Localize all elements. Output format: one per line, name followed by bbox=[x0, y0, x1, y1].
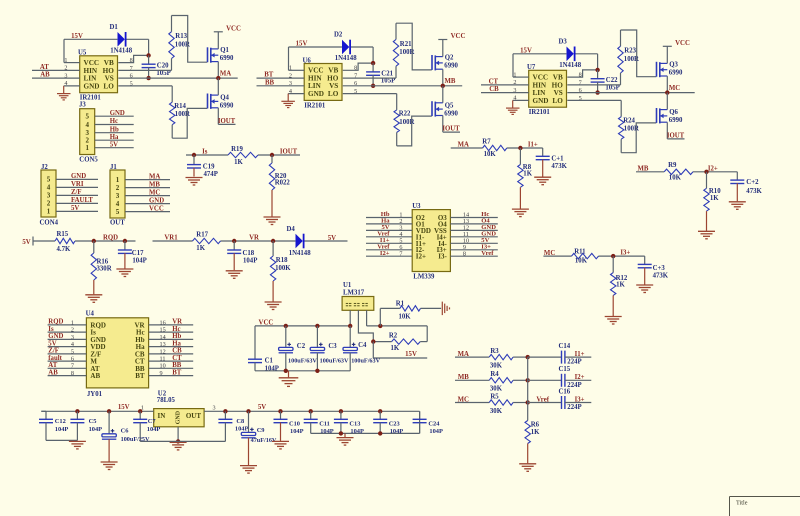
svg-text:RQD: RQD bbox=[103, 235, 118, 242]
transistor Q1 bbox=[211, 48, 219, 50]
power 5V stub bbox=[32, 237, 34, 246]
svg-text:15V: 15V bbox=[71, 33, 83, 40]
wire U4 pin 8 bbox=[48, 375, 87, 377]
ground U7 bbox=[506, 107, 520, 109]
ground C10 bbox=[272, 440, 289, 442]
svg-text:78L05: 78L05 bbox=[157, 397, 176, 404]
wire pin5 LO U6 bbox=[343, 93, 397, 95]
svg-text:5: 5 bbox=[71, 348, 74, 355]
ground C19 bbox=[186, 177, 203, 179]
svg-text:U7: U7 bbox=[527, 64, 536, 71]
wire U4 pin 2 bbox=[48, 331, 87, 333]
node Is bbox=[192, 153, 196, 157]
svg-text:R5: R5 bbox=[490, 393, 499, 400]
svg-text:15V: 15V bbox=[520, 48, 532, 55]
wire pin5 LO U7 bbox=[567, 99, 621, 101]
svg-text:BT: BT bbox=[135, 372, 145, 380]
svg-text:C16: C16 bbox=[559, 388, 571, 395]
svg-text:LO: LO bbox=[328, 90, 339, 98]
wire U3 pin 3 bbox=[366, 229, 412, 231]
svg-text:1N4148: 1N4148 bbox=[335, 55, 358, 62]
node VS U5 bbox=[146, 76, 150, 80]
wire MB line bbox=[343, 85, 462, 87]
ground R20 bbox=[264, 216, 281, 218]
svg-text:LM339: LM339 bbox=[413, 274, 435, 281]
wire to C14 bbox=[528, 356, 562, 358]
svg-text:VS: VS bbox=[105, 75, 114, 83]
svg-text:10K: 10K bbox=[399, 313, 412, 320]
svg-text:Q1: Q1 bbox=[220, 47, 229, 54]
ground R16 bbox=[85, 294, 102, 296]
wire I1+ row bbox=[451, 147, 483, 149]
svg-text:2: 2 bbox=[71, 327, 74, 334]
diode D3 bbox=[567, 47, 574, 62]
capacitor C17 bbox=[124, 241, 126, 250]
ground C+1 bbox=[534, 176, 551, 178]
svg-text:VB: VB bbox=[553, 74, 563, 82]
svg-text:IOUT: IOUT bbox=[442, 126, 460, 133]
ground R10 bbox=[698, 230, 715, 232]
wire to C15 bbox=[528, 379, 562, 381]
wire J3 pin 5 bbox=[95, 115, 134, 117]
node U2 gnd bbox=[176, 439, 180, 443]
svg-text:CB: CB bbox=[172, 348, 182, 355]
ground R18 bbox=[265, 301, 282, 303]
svg-text:VCC: VCC bbox=[308, 67, 324, 75]
ground C+2 bbox=[729, 201, 746, 203]
wire gate loop top R23 bbox=[621, 30, 657, 77]
svg-text:U4: U4 bbox=[86, 311, 95, 318]
capacitor C20 bbox=[148, 55, 150, 64]
svg-text:473K: 473K bbox=[551, 163, 567, 170]
svg-text:11: 11 bbox=[160, 356, 166, 363]
resistor R1 bbox=[379, 308, 381, 326]
svg-text:2: 2 bbox=[116, 184, 120, 192]
capacitor C19 bbox=[193, 155, 195, 165]
ground U2 bbox=[170, 441, 187, 443]
ground U6 bbox=[281, 100, 295, 102]
resistor R5 bbox=[489, 400, 513, 405]
ground C17 bbox=[116, 268, 133, 270]
svg-text:CON4: CON4 bbox=[40, 219, 59, 226]
wire pin8 jog U5 bbox=[118, 55, 148, 62]
svg-text:R24: R24 bbox=[623, 118, 635, 125]
svg-text:104P: 104P bbox=[235, 426, 249, 433]
svg-text:1K: 1K bbox=[234, 159, 243, 166]
wire U4 pin 4 bbox=[48, 346, 87, 348]
svg-text:D1: D1 bbox=[110, 24, 119, 31]
wire J1 pin 2 bbox=[125, 187, 170, 189]
svg-text:IR2101: IR2101 bbox=[304, 102, 326, 109]
wire U4 pin 11 bbox=[149, 360, 194, 362]
wire J1 pin 1 bbox=[125, 179, 170, 181]
svg-text:6990: 6990 bbox=[220, 55, 234, 62]
svg-text:MC: MC bbox=[669, 85, 680, 92]
ground bottom rail bbox=[344, 433, 346, 437]
svg-text:Z/F: Z/F bbox=[71, 189, 82, 196]
svg-text:JY01: JY01 bbox=[87, 391, 103, 398]
svg-text:7: 7 bbox=[71, 363, 74, 370]
svg-text:MA: MA bbox=[458, 351, 469, 358]
svg-text:1: 1 bbox=[47, 208, 51, 216]
svg-text:12: 12 bbox=[160, 348, 166, 355]
svg-text:AB: AB bbox=[48, 369, 58, 376]
svg-text:U6: U6 bbox=[303, 57, 312, 64]
svg-text:J3: J3 bbox=[79, 101, 86, 108]
transistor Q2 bbox=[435, 56, 443, 58]
svg-text:VCC: VCC bbox=[226, 25, 241, 32]
svg-text:5: 5 bbox=[47, 176, 51, 184]
svg-text:I3-: I3- bbox=[438, 253, 447, 261]
node MA bbox=[216, 76, 220, 80]
resistor R9 bbox=[664, 169, 693, 174]
svg-text:IN: IN bbox=[158, 412, 166, 420]
wire BT input bbox=[257, 77, 305, 79]
svg-text:6990: 6990 bbox=[444, 110, 458, 117]
svg-text:13: 13 bbox=[160, 341, 166, 348]
svg-text:8: 8 bbox=[463, 250, 466, 257]
node I2+ bbox=[704, 170, 708, 174]
svg-text:C2: C2 bbox=[297, 343, 306, 350]
svg-text:15V: 15V bbox=[405, 351, 417, 358]
svg-text:C15: C15 bbox=[559, 366, 571, 373]
svg-text:10K: 10K bbox=[575, 257, 588, 264]
wire pin5 LO U5 bbox=[118, 85, 172, 87]
wire pin1 U6 bbox=[289, 69, 305, 71]
node I3+ bbox=[611, 254, 615, 258]
node bottom rail C13 bbox=[339, 431, 343, 435]
svg-text:VB: VB bbox=[328, 67, 338, 75]
svg-text:C24: C24 bbox=[428, 421, 440, 428]
wire U4 pin 10 bbox=[149, 367, 194, 369]
svg-text:VRI: VRI bbox=[71, 181, 84, 188]
svg-text:R23: R23 bbox=[624, 48, 636, 55]
svg-text:OUT: OUT bbox=[186, 412, 202, 420]
wire U3 pin 10 bbox=[450, 242, 497, 244]
capacitor C10 bbox=[278, 409, 282, 413]
svg-text:1: 1 bbox=[71, 319, 74, 326]
svg-text:AT: AT bbox=[40, 64, 49, 71]
svg-text:Hc: Hc bbox=[172, 326, 180, 333]
ground R12 bbox=[605, 316, 622, 318]
resistor R4 bbox=[489, 378, 513, 383]
wire U1 pin VIN bbox=[349, 310, 351, 326]
wire U3 pin 8 bbox=[450, 255, 497, 257]
resistor R12 to ground bbox=[612, 256, 614, 273]
node bottom rail C23 bbox=[378, 431, 382, 435]
svg-text:fault: fault bbox=[48, 355, 62, 362]
wire U4 pin 6 bbox=[48, 360, 87, 362]
svg-text:3: 3 bbox=[116, 192, 120, 200]
wire C7 C8 gnd route bbox=[140, 440, 178, 442]
svg-text:AB: AB bbox=[40, 72, 50, 79]
svg-text:474P: 474P bbox=[204, 171, 218, 178]
wire U3 pin 4 bbox=[366, 236, 412, 238]
node RQD bbox=[92, 239, 96, 243]
svg-text:GND: GND bbox=[84, 82, 100, 90]
svg-text:VR: VR bbox=[172, 319, 182, 326]
svg-text:MC: MC bbox=[458, 396, 469, 403]
svg-text:1: 1 bbox=[85, 144, 89, 152]
svg-text:FAULT: FAULT bbox=[71, 197, 93, 204]
node VOUT R2 bbox=[371, 339, 375, 343]
wire Q2 source to MB bbox=[442, 69, 444, 86]
svg-text:104P: 104P bbox=[55, 426, 69, 433]
ground C5 C12 bbox=[69, 440, 86, 442]
title block bbox=[730, 496, 800, 498]
svg-text:IOUT: IOUT bbox=[667, 133, 685, 140]
svg-text:Q2: Q2 bbox=[445, 55, 454, 62]
wire VCC rail U1 bbox=[255, 325, 350, 327]
wire U1 pin VOUT bbox=[358, 310, 373, 341]
svg-text:VCC: VCC bbox=[451, 33, 466, 40]
svg-text:MB: MB bbox=[149, 181, 160, 188]
svg-text:104P: 104P bbox=[320, 428, 334, 435]
wire MC line bbox=[567, 92, 694, 94]
svg-text:C19: C19 bbox=[203, 164, 215, 171]
svg-text:100uF/63V: 100uF/63V bbox=[320, 357, 349, 364]
svg-text:VCC: VCC bbox=[533, 74, 549, 82]
wire RQD row bbox=[33, 240, 55, 242]
wire pin1 U7 bbox=[513, 76, 529, 78]
svg-text:5: 5 bbox=[116, 208, 120, 216]
svg-text:MA: MA bbox=[458, 141, 469, 148]
svg-text:104P: 104P bbox=[132, 258, 146, 265]
wire U3 pin 13 bbox=[450, 223, 497, 225]
svg-text:1N4148: 1N4148 bbox=[110, 47, 133, 54]
svg-text:VR: VR bbox=[249, 235, 259, 242]
svg-text:Q6: Q6 bbox=[669, 109, 678, 116]
svg-text:Q4: Q4 bbox=[220, 95, 229, 102]
svg-text:R6: R6 bbox=[531, 421, 540, 428]
svg-text:R9: R9 bbox=[668, 162, 677, 169]
power VCC Q3 bbox=[663, 45, 672, 47]
wire U2 GND pin bbox=[177, 427, 179, 442]
wire Q4 drain bbox=[217, 78, 219, 95]
wire J3 pin 4 bbox=[95, 124, 134, 126]
wire Q4 source IOUT bbox=[217, 108, 219, 125]
diode D4 bbox=[296, 234, 303, 249]
svg-text:C8: C8 bbox=[236, 418, 244, 425]
op-amp U5 IR2101 box bbox=[80, 56, 118, 93]
svg-text:Q5: Q5 bbox=[445, 102, 454, 109]
svg-text:R2: R2 bbox=[389, 333, 398, 340]
svg-text:Z/F: Z/F bbox=[48, 348, 59, 355]
wire U3 pin 7 bbox=[366, 255, 412, 257]
wire 15V rail bottom bbox=[41, 410, 153, 412]
svg-text:10K: 10K bbox=[484, 151, 497, 158]
svg-text:LO: LO bbox=[552, 97, 563, 105]
node I1+ bbox=[518, 146, 522, 150]
wire U3 pin 14 bbox=[450, 217, 497, 219]
svg-text:Title: Title bbox=[736, 500, 748, 507]
svg-text:D4: D4 bbox=[287, 226, 296, 233]
wire J1 pin 3 bbox=[125, 195, 170, 197]
wire U3 pin 6 bbox=[366, 249, 412, 251]
wire Q1 source to MA bbox=[217, 62, 219, 79]
svg-text:C1: C1 bbox=[265, 357, 274, 364]
wire J2 pin 1 bbox=[56, 210, 98, 212]
ground C18 bbox=[226, 270, 243, 272]
svg-text:GND: GND bbox=[110, 110, 125, 117]
svg-text:4.7K: 4.7K bbox=[57, 246, 71, 253]
svg-text:C7: C7 bbox=[148, 418, 157, 425]
svg-text:BT: BT bbox=[172, 369, 182, 376]
resistor R11 bbox=[572, 253, 599, 258]
svg-text:R10: R10 bbox=[709, 188, 721, 195]
resistor R17 bbox=[193, 238, 221, 243]
wire U3 pin 1 bbox=[366, 217, 412, 219]
svg-text:R21: R21 bbox=[400, 41, 412, 48]
node VB U5 bbox=[146, 53, 150, 57]
wire pin7 HO U5 bbox=[118, 69, 171, 71]
svg-text:104P: 104P bbox=[147, 426, 161, 433]
svg-text:C11: C11 bbox=[319, 421, 330, 428]
svg-text:MA: MA bbox=[149, 173, 160, 180]
svg-text:1K: 1K bbox=[531, 429, 540, 436]
svg-text:C21: C21 bbox=[381, 70, 393, 77]
node VS U6 bbox=[371, 84, 375, 88]
capacitor C18 bbox=[233, 241, 235, 250]
node MB bbox=[441, 84, 445, 88]
wire gate loop top R21 bbox=[396, 23, 432, 70]
svg-text:5V: 5V bbox=[22, 239, 30, 246]
wire pin7 HO U6 bbox=[343, 77, 396, 79]
svg-text:AT: AT bbox=[48, 362, 57, 369]
svg-text:100uF/63V: 100uF/63V bbox=[288, 357, 317, 364]
svg-text:Hb: Hb bbox=[110, 126, 119, 133]
wire U4 pin 15 bbox=[149, 331, 194, 333]
svg-text:C+1: C+1 bbox=[551, 155, 564, 162]
wire U4 pin 16 bbox=[149, 324, 194, 326]
svg-text:15V: 15V bbox=[296, 41, 308, 48]
wire GND pin U5 bbox=[64, 85, 80, 87]
node vref MC bbox=[526, 400, 530, 404]
svg-text:5V: 5V bbox=[71, 205, 79, 212]
wire Is node row bbox=[186, 154, 228, 156]
svg-text:I3+: I3+ bbox=[620, 250, 630, 257]
wire J2 pin 2 bbox=[56, 202, 98, 204]
svg-text:C12: C12 bbox=[55, 418, 66, 425]
resistor R2 bbox=[373, 341, 391, 343]
capacitor C16 bbox=[561, 396, 563, 409]
power VCC Q1 bbox=[214, 31, 223, 33]
svg-text:VCC: VCC bbox=[149, 205, 164, 212]
svg-text:GND: GND bbox=[149, 197, 164, 204]
wire ADJ net bbox=[367, 325, 428, 327]
power VCC Q2 bbox=[438, 39, 447, 41]
wire J2 pin 3 bbox=[56, 194, 98, 196]
wire pin8 jog U7 bbox=[567, 70, 597, 77]
wire U4 pin 3 bbox=[48, 338, 87, 340]
transistor Q5 bbox=[435, 102, 443, 104]
ground R8 bbox=[512, 208, 529, 210]
svg-text:GND: GND bbox=[533, 97, 549, 105]
wire MC vref row bbox=[455, 402, 489, 404]
capacitor C12 bbox=[41, 410, 46, 412]
wire gate loop top R13 bbox=[172, 16, 208, 63]
svg-text:C17: C17 bbox=[132, 250, 144, 257]
svg-text:30K: 30K bbox=[490, 408, 503, 415]
wire CT input bbox=[481, 84, 529, 86]
capacitor C23 bbox=[378, 409, 382, 413]
svg-text:5V: 5V bbox=[258, 404, 266, 411]
svg-text:VB: VB bbox=[104, 59, 114, 67]
svg-text:7: 7 bbox=[399, 250, 402, 257]
node R18 tap bbox=[271, 239, 275, 243]
svg-text:1K: 1K bbox=[523, 171, 532, 178]
wire gate loop bottom R22 bbox=[397, 116, 432, 146]
svg-text:6990: 6990 bbox=[669, 117, 683, 124]
svg-text:104P: 104P bbox=[350, 428, 364, 435]
svg-text:100uF/63V: 100uF/63V bbox=[351, 357, 380, 364]
svg-text:I2+: I2+ bbox=[416, 253, 426, 261]
resistor R16 bbox=[93, 241, 95, 253]
ground U5 bbox=[57, 93, 71, 95]
svg-text:R3: R3 bbox=[490, 348, 499, 355]
svg-text:GND: GND bbox=[308, 90, 324, 98]
svg-text:C5: C5 bbox=[89, 418, 97, 425]
capacitor C8 bbox=[223, 409, 227, 413]
svg-text:1K: 1K bbox=[391, 345, 400, 352]
capacitor C+1 bbox=[542, 148, 544, 156]
svg-text:VCC: VCC bbox=[84, 59, 100, 67]
svg-text:473K: 473K bbox=[653, 272, 669, 279]
capacitor C13 bbox=[339, 409, 343, 413]
svg-text:D2: D2 bbox=[334, 32, 343, 39]
wire U3 pin 2 bbox=[366, 223, 412, 225]
svg-text:GND: GND bbox=[176, 410, 182, 424]
node VB U7 bbox=[595, 68, 599, 72]
svg-text:4: 4 bbox=[116, 200, 120, 208]
svg-text:104P: 104P bbox=[89, 426, 103, 433]
svg-text:I2+: I2+ bbox=[708, 165, 718, 172]
svg-text:104P: 104P bbox=[290, 428, 304, 435]
svg-text:3: 3 bbox=[71, 334, 74, 341]
resistor R24 bbox=[620, 100, 622, 116]
svg-text:30K: 30K bbox=[490, 386, 503, 393]
wire 15V rail U7 bbox=[513, 53, 566, 55]
svg-text:5: 5 bbox=[85, 113, 89, 121]
svg-text:104P: 104P bbox=[390, 428, 404, 435]
svg-text:14: 14 bbox=[160, 334, 166, 341]
resistor R3 bbox=[489, 354, 513, 359]
svg-text:C3: C3 bbox=[328, 343, 337, 350]
svg-text:LIN: LIN bbox=[533, 89, 547, 97]
ground U1 section bbox=[288, 371, 290, 378]
svg-text:I1+: I1+ bbox=[575, 351, 585, 358]
svg-text:C+3: C+3 bbox=[653, 265, 666, 272]
svg-text:30K: 30K bbox=[490, 363, 503, 370]
svg-text:C13: C13 bbox=[349, 421, 360, 428]
wire U4 pin 13 bbox=[149, 346, 194, 348]
svg-text:224P: 224P bbox=[567, 404, 581, 411]
svg-text:GND: GND bbox=[48, 333, 63, 340]
op-amp U6 IR2101 box bbox=[304, 64, 342, 101]
op-amp U7 IR2101 box bbox=[529, 70, 567, 107]
wire VR row bbox=[153, 240, 193, 242]
svg-text:6990: 6990 bbox=[220, 103, 234, 110]
wire vref rail bbox=[527, 357, 529, 402]
svg-text:MA: MA bbox=[220, 70, 231, 77]
wire MB vref row bbox=[455, 379, 489, 381]
svg-text:Hc: Hc bbox=[110, 118, 118, 125]
resistor R19 bbox=[228, 152, 258, 157]
wire U4 pin 7 bbox=[48, 367, 87, 369]
wire J3 pin 1 bbox=[95, 147, 134, 149]
svg-text:1N4148: 1N4148 bbox=[559, 62, 582, 69]
svg-text:1N4148: 1N4148 bbox=[289, 250, 312, 257]
